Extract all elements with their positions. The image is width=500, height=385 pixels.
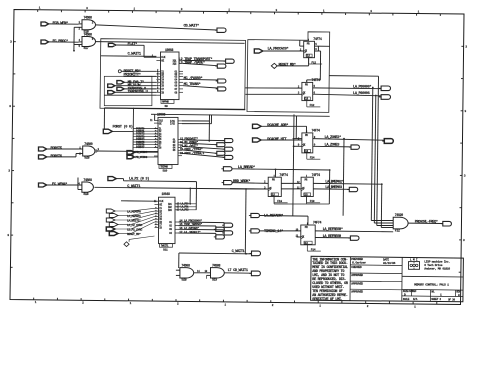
svg-text:OE: OE	[159, 203, 162, 206]
U10 right pin stubs	[178, 120, 182, 122]
connector LA_MEMGP0	[106, 209, 115, 213]
svg-text:MEMORY CONTROL; PALS 1: MEMORY CONTROL; PALS 1	[414, 282, 449, 286]
svg-text:PR: PR	[305, 134, 308, 137]
page border frame	[10, 10, 464, 305]
connector LA_PROCAC0*	[254, 49, 263, 53]
svg-text:2: 2	[82, 302, 84, 305]
IC U10 19968	[158, 117, 178, 164]
wire second input	[297, 236, 301, 238]
svg-text:74S08: 74S08	[84, 16, 93, 20]
connector CD_WAIT1 oval	[251, 271, 260, 276]
svg-text:S11: S11	[163, 249, 168, 252]
wire vertical junction	[73, 27, 75, 50]
connector LA_WRITE*	[106, 218, 115, 222]
svg-text:1: 1	[319, 304, 321, 307]
connector PROC_/TYPE2* oval	[217, 151, 225, 155]
svg-text:14 LA_PROC0006*: 14 LA_PROC0006*	[179, 218, 202, 222]
wire	[118, 233, 131, 235]
svg-text:1: 1	[224, 303, 226, 306]
svg-text:O5: O5	[173, 149, 176, 152]
svg-text:74S20: 74S20	[395, 213, 404, 217]
title block signature rows	[401, 257, 403, 301]
wire	[49, 23, 79, 25]
wire	[261, 125, 306, 127]
svg-text:1: 1	[228, 9, 230, 12]
wire LA_P80006 out	[313, 94, 381, 96]
connector PROC_/TYPE01 oval	[225, 155, 233, 159]
wire	[121, 70, 156, 72]
connector PROGCHL-FREQ* oval	[443, 221, 452, 226]
wire PROGCHL-FREQ*	[408, 222, 442, 224]
svg-text:TRIPWD: TRIPWD	[160, 166, 168, 169]
svg-text:CHECKED: CHECKED	[351, 266, 362, 269]
wire EC net to FF2	[96, 42, 245, 44]
wire LA_ZONE3	[313, 145, 351, 148]
connector LA_REFRESH oval	[350, 236, 359, 240]
svg-text:FORST (0 6): FORST (0 6)	[113, 124, 133, 129]
svg-text:PR: PR	[305, 226, 308, 229]
wire to flip-flop F12 pin 2	[245, 87, 302, 89]
wire TRAP_/BASE*	[183, 63, 217, 65]
svg-text:S18: S18	[83, 192, 88, 196]
svg-text:1: 1	[35, 301, 37, 304]
wire gate out to U10	[97, 150, 159, 153]
wire	[232, 182, 268, 185]
connector EC_WEN4*	[39, 183, 47, 187]
wire	[49, 41, 79, 43]
svg-text:I03: I03	[168, 209, 172, 212]
svg-text:APPROVED: APPROVED	[351, 282, 363, 285]
connector MC_/PASS0* oval	[218, 79, 226, 83]
connector MB_SLOW	[108, 84, 115, 87]
connector MC_TRANS* oval	[218, 87, 226, 91]
svg-text:9: 9	[155, 145, 157, 148]
flip-flop F12 74F74	[302, 82, 313, 100]
wire	[115, 210, 131, 212]
svg-text:I8: I8	[161, 91, 164, 94]
wire F10 Q- to F19	[281, 188, 301, 190]
flip-flop F19 74F74	[301, 177, 313, 196]
connector LA_P80006* oval	[381, 86, 390, 91]
flip-flop F10 74F74	[268, 177, 281, 196]
title block LMI logo	[409, 262, 420, 270]
connector LD_P2_SYNC	[106, 227, 115, 231]
wire F10 Q to F19	[281, 182, 301, 184]
connector LA_BMEM03 oval	[349, 187, 357, 191]
svg-text:17 LA_/8FAULT*: 17 LA_/8FAULT*	[179, 230, 201, 234]
wire bus	[112, 130, 133, 132]
svg-text:1: 1	[418, 11, 420, 14]
connector LA_ZONE3 oval	[351, 145, 359, 149]
svg-text:I8: I8	[159, 146, 162, 149]
connector RESET_MD*	[109, 232, 118, 236]
svg-text:3: 3	[8, 169, 10, 173]
svg-text:9: 9	[155, 225, 157, 228]
wire	[263, 50, 304, 52]
group box around MB inputs	[104, 76, 152, 105]
IC U9 footer MAPWD S9	[161, 100, 174, 104]
svg-text:PROGCHL-FREQ*: PROGCHL-FREQ*	[415, 219, 438, 224]
wire CD_WAIT1 out	[224, 272, 251, 274]
wire	[79, 23, 83, 25]
svg-text:S17: S17	[84, 46, 89, 50]
wire junction vertical	[244, 189, 247, 254]
svg-text:74F74: 74F74	[313, 221, 322, 225]
IC U11 19648	[159, 197, 176, 243]
svg-text:12 PROCWAIT*: 12 PROCWAIT*	[180, 136, 199, 140]
svg-text:5: 5	[315, 43, 317, 46]
connector C_WAIT1 oval	[252, 251, 261, 256]
wire	[134, 156, 158, 158]
wire C_WAIT1 into F10 pin 3	[230, 188, 268, 190]
gate 74S08 S2B bottom	[180, 268, 194, 278]
svg-text:01/23/86: 01/23/86	[383, 261, 396, 265]
connector PD_SYNC8	[127, 155, 134, 159]
connector RESET_MD* circle	[118, 70, 121, 73]
svg-text:1: 1	[414, 305, 416, 308]
wire LA_P80006* out	[313, 87, 381, 90]
IC U9 19968	[161, 52, 180, 100]
IC U10 footer S10	[159, 165, 172, 169]
svg-text:LA_BMEM02*: LA_BMEM02*	[325, 180, 343, 185]
svg-text:74F74: 74F74	[312, 129, 321, 133]
wire bundle to S20 gate	[371, 88, 373, 221]
svg-text:Andover, MA 01810: Andover, MA 01810	[424, 267, 450, 271]
svg-text:LA_BMEM03: LA_BMEM03	[325, 186, 342, 190]
wire	[118, 215, 131, 217]
svg-text:LISP machine Inc.: LISP machine Inc.	[424, 260, 450, 264]
wire	[115, 219, 131, 221]
wire U11 CLK from left	[121, 200, 155, 202]
svg-text:RESET_MD*: RESET_MD*	[279, 62, 296, 67]
gate 74S20 F12	[393, 217, 408, 229]
svg-text:SCALE: SCALE	[403, 298, 410, 301]
connector LA_PROC0006* oval	[224, 223, 233, 227]
svg-text:74F74: 74F74	[312, 78, 321, 82]
connector TRAP_TEMP06* oval	[216, 227, 225, 231]
svg-text:3: 3	[464, 173, 466, 177]
svg-text:3: 3	[464, 109, 466, 113]
wire LA_P2 net	[116, 178, 123, 180]
svg-text:OF 30: OF 30	[448, 298, 455, 301]
U10 left pin stubs	[154, 119, 158, 121]
svg-text:15 PROC_/TYPE2*: 15 PROC_/TYPE2*	[180, 147, 203, 151]
connector LA_ZONE2* oval	[384, 139, 393, 144]
flip-flop F24 74F74	[302, 133, 313, 153]
gate 74S00 S2B	[83, 146, 95, 156]
U9 left pin stubs	[156, 56, 160, 58]
svg-text:DCACHE_ADR*: DCACHE_ADR*	[267, 123, 288, 128]
svg-text:74S00: 74S00	[84, 142, 93, 146]
svg-text:74S08: 74S08	[83, 178, 92, 182]
svg-text:REF: REF	[413, 290, 418, 293]
wire C_WAIT1 to oval	[179, 252, 246, 255]
svg-text:PR: PR	[305, 84, 308, 87]
connector TRAPSTKE.U	[117, 87, 124, 90]
svg-text:74F74: 74F74	[313, 37, 322, 41]
svg-text:19968: 19968	[165, 48, 173, 52]
svg-text:74F74: 74F74	[279, 173, 288, 177]
connector TIMING_14* oval	[251, 229, 260, 233]
svg-text:2: 2	[177, 303, 179, 306]
svg-text:N/A: N/A	[413, 297, 418, 301]
connector BRD_WRDK* oval	[224, 181, 233, 185]
svg-text:16 LA_A2PO06*: 16 LA_A2PO06*	[179, 226, 199, 230]
svg-text:PR: PR	[272, 178, 275, 181]
svg-text:S2B: S2B	[84, 156, 89, 160]
svg-text:2Q2: 2Q2	[173, 62, 178, 65]
wire PROC_/TYPE2*	[182, 150, 217, 153]
svg-text:O1: O1	[169, 221, 172, 224]
connector TRAP_/BASE* oval	[217, 64, 226, 68]
svg-text:LA_P80006*: LA_P80006*	[353, 84, 371, 89]
svg-text:K.Gartner: K.Gartner	[352, 261, 366, 265]
wire to flip-flop F12 pin 3	[245, 93, 302, 95]
svg-text:EC_WEN4*: EC_WEN4*	[52, 182, 67, 187]
connector RESET_MD* diamond	[271, 63, 277, 68]
svg-text:O3: O3	[169, 228, 172, 231]
svg-text:CD_WAIT*: CD_WAIT*	[184, 24, 200, 29]
connector CD_WAIT* oval	[217, 28, 226, 32]
svg-text:MAPWD: MAPWD	[162, 101, 169, 104]
wire	[78, 189, 82, 191]
wire U10 CLK from above	[154, 114, 156, 120]
group box around U9 inputs	[100, 39, 246, 110]
wire MC_/PASS0*	[183, 78, 217, 81]
connector MB_FWA.T*	[117, 81, 124, 84]
wire LA_BMEM03	[313, 188, 349, 190]
connector PROCWAIT* oval	[225, 139, 233, 143]
gate 74S08 S1B	[82, 20, 96, 30]
connector ECB_WEN*	[41, 22, 49, 26]
svg-text:LA_REFRESH: LA_REFRESH	[323, 235, 341, 239]
wire C_WAIT1 long net	[94, 187, 190, 188]
wire	[74, 44, 82, 46]
svg-text:NO.: NO.	[431, 290, 435, 293]
wire bus taps to U10	[133, 128, 158, 130]
svg-text:O8: O8	[175, 91, 178, 94]
svg-text:15 TRAP_TEMP06*: 15 TRAP_TEMP06*	[179, 222, 202, 226]
svg-text:19648: 19648	[162, 192, 170, 196]
svg-text:LA_REFRESH*: LA_REFRESH*	[323, 227, 343, 232]
svg-text:1: 1	[39, 7, 41, 10]
svg-text:74S08: 74S08	[212, 263, 221, 267]
connector FORST6	[39, 155, 47, 159]
wire	[260, 215, 309, 218]
svg-text:OE: OE	[159, 122, 162, 125]
svg-text:MC_/PASS0*: MC_/PASS0*	[184, 76, 203, 81]
wire	[260, 230, 301, 232]
svg-text:2: 2	[272, 304, 274, 307]
connector LA_P80006 oval	[381, 95, 390, 100]
svg-text:C_WAIT1: C_WAIT1	[127, 185, 141, 189]
wire	[47, 148, 79, 150]
IC U11 footer S11	[160, 244, 173, 248]
connector TRAP_TRANSPORT* oval	[226, 59, 235, 63]
wire net to F24	[295, 116, 297, 139]
wire from U10 to F24	[293, 114, 294, 215]
svg-text:3: 3	[463, 238, 465, 242]
connector PD_SYNC4	[127, 151, 134, 155]
wire U11 outputs	[179, 221, 225, 224]
group box around F12 flip-flops	[247, 32, 330, 113]
svg-text:2: 2	[367, 305, 369, 308]
svg-text:PR: PR	[307, 43, 310, 46]
wire TRAP_TRANSPORT*	[183, 59, 225, 62]
svg-text:MC_TRANS*: MC_TRANS*	[184, 82, 201, 87]
svg-text:7WAIT1: 7WAIT1	[161, 244, 169, 247]
gate 74S08 S17	[82, 37, 96, 47]
svg-text:FORST7: FORST7	[136, 146, 145, 149]
wire LA_BMEM02*	[313, 182, 382, 185]
wire	[115, 228, 131, 230]
svg-text:L3 TRAP_/BASE*: L3 TRAP_/BASE*	[179, 60, 205, 65]
flip-flop F12 74F74	[304, 41, 315, 57]
wire clear loop	[273, 197, 275, 205]
connector TRAPNSTKE.U	[108, 91, 115, 94]
connector LA_A2PO06* oval	[224, 231, 233, 235]
connector FORST5	[39, 147, 47, 151]
wire LA_REFRESH	[315, 237, 350, 239]
svg-text:16 PROC_/TYPE0,1: 16 PROC_/TYPE0,1	[180, 151, 205, 155]
wire between gates	[194, 272, 211, 274]
wire	[178, 253, 180, 268]
U9 right pin stubs	[179, 59, 183, 61]
svg-text:S10: S10	[163, 170, 168, 173]
svg-text:PR: PR	[305, 178, 308, 181]
connector LA_/8FAULT* oval	[216, 235, 225, 239]
wire CD_WAIT* net	[96, 25, 217, 30]
svg-text:14 MC_/WAIT*: 14 MC_/WAIT*	[180, 144, 199, 148]
wire PROCWAIT*	[182, 139, 225, 142]
svg-text:APPROVED: APPROVED	[351, 290, 363, 293]
connector LA_REFADR* oval	[251, 213, 260, 217]
svg-text:S9: S9	[165, 105, 169, 108]
wire	[118, 224, 131, 226]
connector FLAT*	[108, 43, 115, 46]
wire	[276, 65, 308, 67]
IC U11 top-right I/O rows	[175, 203, 197, 205]
connector DCACHE_ADR*	[253, 124, 262, 128]
title block size/ref row	[402, 295, 463, 298]
wire LA_REFRESH*	[315, 230, 393, 233]
svg-text:1: 1	[130, 302, 132, 305]
wire PROC_/TYPE01	[182, 153, 225, 157]
svg-text:74S08: 74S08	[181, 263, 190, 267]
svg-text:LA_P80006: LA_P80006	[353, 92, 370, 96]
svg-text:74S08: 74S08	[84, 32, 93, 36]
title block disclaimer	[349, 257, 351, 301]
gate 74S08 S18	[82, 182, 94, 192]
connector LA_MEMGP1	[109, 214, 118, 218]
svg-text:74F74: 74F74	[312, 173, 321, 177]
connector DCACHE_HIT	[253, 138, 262, 142]
wire	[261, 139, 302, 141]
svg-text:S2B: S2B	[181, 278, 186, 282]
ground diamond	[124, 242, 129, 247]
svg-text:L7 CD_WAIT1: L7 CD_WAIT1	[228, 269, 249, 273]
svg-text:F12: F12	[395, 229, 400, 233]
svg-text:5: 5	[79, 45, 81, 48]
svg-text:11: 11	[150, 119, 153, 122]
svg-text:3: 3	[7, 233, 9, 237]
connector FORST bus	[103, 129, 112, 133]
svg-text:13 MC_ZONE0*: 13 MC_ZONE0*	[180, 140, 199, 144]
svg-text:APPROVED: APPROVED	[351, 274, 363, 277]
svg-text:LA_ZONE2*: LA_ZONE2*	[325, 135, 342, 140]
wire	[47, 184, 82, 186]
connector LA_P2	[108, 177, 116, 181]
svg-text:O4: O4	[169, 232, 172, 235]
wire MC_/WAIT*	[182, 146, 225, 149]
wire	[134, 151, 158, 153]
svg-text:3: 3	[9, 104, 11, 108]
gate 74S08 S19	[211, 268, 225, 278]
svg-text:6 Tech Drive: 6 Tech Drive	[424, 263, 443, 267]
wire LA_ZONE2*	[313, 139, 385, 141]
svg-text:3: 3	[465, 44, 467, 48]
svg-text:S19: S19	[212, 278, 217, 282]
svg-text:I/O2: I/O2	[170, 123, 176, 126]
svg-text:L M I: L M I	[410, 258, 418, 261]
svg-text:I8: I8	[159, 226, 162, 229]
connector MC_ZONE* oval	[217, 143, 225, 147]
connector MC_/WAIT* oval	[225, 147, 233, 151]
svg-text:5: 5	[314, 85, 316, 88]
wire MC_TRANS*	[183, 86, 217, 88]
wire long net above U10	[105, 108, 246, 110]
connector LA_BREAD* oval	[223, 167, 232, 171]
flip-flop F14 74F74	[301, 225, 315, 245]
svg-text:3: 3	[10, 40, 12, 44]
wires MB inputs to U9	[124, 81, 156, 83]
connector EC_PROC*	[41, 40, 49, 44]
wire MC_ZONE*	[182, 143, 217, 145]
svg-text:OE: OE	[161, 59, 164, 62]
svg-text:LA_ZONE3: LA_ZONE3	[325, 143, 340, 147]
svg-text:13 LA_PD2: 13 LA_PD2	[177, 209, 189, 212]
wire	[47, 156, 76, 158]
title block	[311, 256, 464, 302]
wire U10 top outputs	[182, 120, 210, 122]
svg-text:C_WAIT1: C_WAIT1	[232, 250, 246, 254]
wire LA_BREAD net	[232, 169, 330, 170]
svg-text:O2: O2	[169, 225, 172, 228]
wire F12 outputs	[315, 45, 330, 47]
wire vertical net	[342, 139, 345, 216]
connector LA_P2_SYNC	[109, 223, 118, 227]
svg-text:SENTATIVE OF LMI.: SENTATIVE OF LMI.	[312, 298, 342, 302]
wire FLAT* to U9 CLK	[116, 44, 144, 46]
svg-text:SHEET 2: SHEET 2	[431, 298, 441, 301]
